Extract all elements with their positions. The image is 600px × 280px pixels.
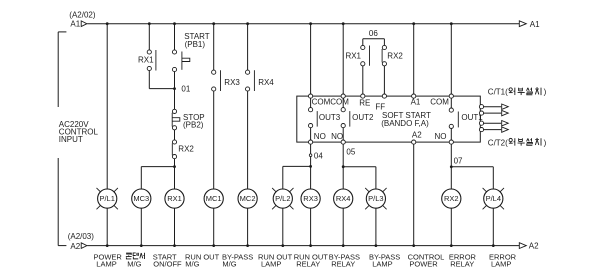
wire stop to RX2 contact <box>174 130 176 140</box>
wire RX1 coil drop <box>174 167 176 189</box>
svg-text:P/L1: P/L1 <box>99 194 114 203</box>
soft starter U1 SOFT START (BANDO F,A) <box>297 96 481 142</box>
svg-text:(PB2): (PB2) <box>183 121 204 130</box>
svg-text:): ) <box>544 138 547 147</box>
terminal A1 box <box>412 94 416 98</box>
wire RX1 coil to bottom rail <box>174 208 176 245</box>
svg-text:LAMP: LAMP <box>491 259 511 268</box>
wire MC2 to bottom rail <box>247 208 249 245</box>
svg-text:P/L2: P/L2 <box>275 194 290 203</box>
svg-text:(A2/02): (A2/02) <box>69 10 96 19</box>
wire COM3 column from rail <box>450 24 452 94</box>
lamp P/L1 POWER LAMP <box>97 188 101 192</box>
svg-text:C/T1(: C/T1( <box>488 88 508 97</box>
svg-text:RX4: RX4 <box>258 78 274 87</box>
wire RX2 coil to bottom rail <box>450 208 452 245</box>
terminal CT3 with arrow <box>479 121 483 125</box>
svg-text:RX1: RX1 <box>167 194 182 203</box>
pushbutton PB1 START (NO) <box>172 50 176 54</box>
lamp P/L4 ERROR LAMP <box>483 188 487 192</box>
svg-text:RX3: RX3 <box>303 194 318 203</box>
svg-text:LAMP: LAMP <box>96 259 116 268</box>
svg-text:RX2: RX2 <box>444 194 459 203</box>
contact OUT2 <box>342 98 344 107</box>
coil MC2 BY-PASS M/G <box>238 189 257 208</box>
wire P/L2 to bottom rail <box>282 208 284 245</box>
contact RX1 (RE branch) <box>362 39 364 46</box>
svg-text:NO: NO <box>331 132 343 141</box>
coil RX2 ERROR RELAY <box>442 189 461 208</box>
svg-text:A1: A1 <box>411 97 421 106</box>
svg-text:RX1: RX1 <box>345 51 361 60</box>
wire MC1 to bottom rail <box>213 208 215 245</box>
contact RX1 (NO) <box>147 50 151 54</box>
wire start column <box>174 24 176 50</box>
svg-text:RX4: RX4 <box>336 194 351 203</box>
node 01 <box>174 72 176 110</box>
svg-text:A2: A2 <box>529 242 539 251</box>
svg-text:05: 05 <box>346 148 355 157</box>
svg-text:M/G: M/G <box>185 259 199 268</box>
svg-text:M/G: M/G <box>222 259 236 268</box>
terminal COM1 (top) <box>309 94 313 98</box>
wire COM2 column from rail <box>342 24 344 94</box>
svg-text:OUT2: OUT2 <box>352 113 374 122</box>
terminal arrow A1 left <box>81 21 87 27</box>
label C/T2 (external) <box>488 138 508 147</box>
label condenser M/G (korean) <box>126 253 132 259</box>
svg-text:): ) <box>544 88 547 97</box>
coil MC1 RUN OUT M/G <box>204 189 223 208</box>
wire COM1 column from rail <box>310 24 312 94</box>
terminal NO3 (bottom) <box>449 140 453 144</box>
svg-text:MC2: MC2 <box>240 194 256 203</box>
coil RX4 BY-PASS RELAY <box>334 189 353 208</box>
node 05 <box>342 144 344 167</box>
svg-text:RX3: RX3 <box>224 78 240 87</box>
wire RX3 contact column <box>213 24 215 70</box>
svg-text:MC3: MC3 <box>133 194 149 203</box>
terminal FF <box>382 94 386 98</box>
terminal CT2 with arrow <box>479 111 483 115</box>
AC220V control input bracket <box>57 32 59 107</box>
svg-text:RELAY: RELAY <box>296 259 320 268</box>
svg-text:LAMP: LAMP <box>372 259 392 268</box>
terminal arrow A2 left <box>81 243 87 249</box>
junction node 05 branch <box>342 165 345 168</box>
wire RX3 coil to bottom rail <box>310 208 312 245</box>
junction to MC3 branch <box>173 165 176 168</box>
wire RX2 coil drop <box>450 167 452 189</box>
svg-text:LAMP: LAMP <box>261 259 281 268</box>
svg-text:A2: A2 <box>412 130 422 139</box>
coil RX1 START ON/OFF relay <box>165 189 184 208</box>
terminal A2 box <box>412 140 416 144</box>
node A1 top rail <box>87 23 519 25</box>
svg-text:C/T2(: C/T2( <box>488 138 508 147</box>
svg-text:NO: NO <box>314 132 326 141</box>
bottom function labels <box>94 252 517 268</box>
wire A1 terminal column <box>413 24 415 94</box>
coil RX3 RUN OUT RELAY <box>301 189 320 208</box>
contact RX2 (FF branch) <box>383 39 385 46</box>
junction node 04 branch <box>309 165 312 168</box>
svg-text:A1: A1 <box>530 20 540 29</box>
label C/T1 (external) <box>488 88 508 97</box>
svg-text:INPUT: INPUT <box>59 135 83 144</box>
lamp P/L2 RUN OUT LAMP <box>272 188 276 192</box>
svg-text:RX1: RX1 <box>138 55 154 64</box>
wire P/L3 branch <box>375 167 377 189</box>
terminal CT4 with arrow <box>479 128 483 132</box>
svg-text:M/G: M/G <box>127 259 141 268</box>
svg-text:COM: COM <box>430 97 449 106</box>
svg-text:P/L4: P/L4 <box>486 194 501 203</box>
terminal RE <box>361 94 365 98</box>
wire CONTROL POWER to bottom rail <box>413 144 415 245</box>
svg-text:RELAY: RELAY <box>331 259 355 268</box>
contact RX4 (NO) <box>246 70 250 74</box>
wire MC3 to bottom rail <box>140 208 142 245</box>
wire P/L1 column <box>106 24 108 189</box>
wire P/L4 branch <box>492 167 494 189</box>
wire P/L3 to bottom rail <box>375 208 377 245</box>
node A2 bottom rail <box>87 245 519 247</box>
contact OUT1 <box>450 98 452 108</box>
wire to MC2 coil <box>247 91 249 189</box>
svg-text:RX2: RX2 <box>178 145 194 154</box>
wire to MC1 coil <box>213 91 215 189</box>
label AC220V CONTROL INPUT <box>59 120 99 144</box>
svg-text:06: 06 <box>369 29 378 38</box>
wire RX3 coil drop <box>310 166 312 189</box>
wire RX2 contact to junction <box>174 159 176 167</box>
junction node 07 branch <box>450 165 453 168</box>
svg-text:OUT3: OUT3 <box>319 113 341 122</box>
svg-text:ON/OFF: ON/OFF <box>153 259 182 268</box>
wire RX1 contact column <box>148 24 150 50</box>
wire RX1 contact to node 01 <box>148 71 150 89</box>
node 07 <box>450 144 452 167</box>
contact RX2 (NO) <box>172 140 176 144</box>
svg-text:MC1: MC1 <box>206 194 222 203</box>
svg-text:(A2/03): (A2/03) <box>68 232 95 241</box>
svg-text:01: 01 <box>181 85 190 94</box>
svg-text:07: 07 <box>454 157 463 166</box>
svg-text:NO: NO <box>435 132 447 141</box>
svg-text:RELAY: RELAY <box>450 259 474 268</box>
svg-text:POWER: POWER <box>409 259 438 268</box>
svg-text:P/L3: P/L3 <box>368 194 383 203</box>
lamp P/L3 BY-PASS LAMP <box>365 188 369 192</box>
coil MC3 (condenser M/G) <box>132 189 151 208</box>
terminal NO1 (bottom) <box>309 140 313 144</box>
wire RE drop <box>362 66 364 94</box>
svg-text:04: 04 <box>314 152 323 161</box>
terminal COM3 (top) <box>449 94 453 98</box>
svg-text:(BANDO F,A): (BANDO F,A) <box>381 119 429 128</box>
svg-text:A1: A1 <box>70 20 80 29</box>
terminal CT1 with arrow <box>479 105 483 109</box>
wire P/L4 to bottom rail <box>492 208 494 245</box>
svg-text:RX2: RX2 <box>387 51 403 60</box>
wire RX4 coil to bottom rail <box>342 208 344 245</box>
wire MC3 drop <box>140 167 142 189</box>
terminal COM2 (top) <box>341 94 345 98</box>
terminal NO2 (bottom) <box>341 140 345 144</box>
node 06 jumper wire <box>363 38 385 40</box>
wire FF drop <box>383 66 385 94</box>
svg-text:(PB1): (PB1) <box>185 40 206 49</box>
wire P/L2 branch from node 04 <box>282 166 284 189</box>
pushbutton PB2 STOP (NC) <box>172 109 176 113</box>
node 04 <box>310 144 312 154</box>
contact RX3 (NO) <box>212 70 216 74</box>
svg-text:RE: RE <box>359 99 370 108</box>
wire RX4 coil drop <box>342 167 344 189</box>
svg-text:A2: A2 <box>70 242 80 251</box>
contact OUT3 <box>310 98 312 107</box>
wire RX4 contact column <box>247 24 249 70</box>
